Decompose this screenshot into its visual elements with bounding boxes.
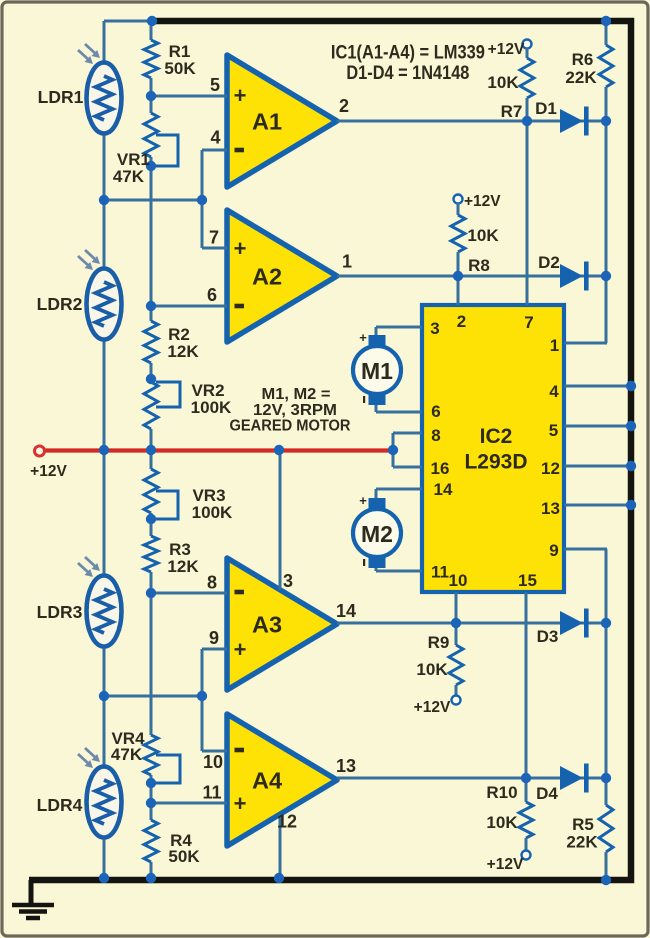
svg-text:A3: A3 (252, 612, 282, 638)
svg-text:3: 3 (283, 571, 293, 591)
svg-text:+: + (234, 236, 247, 261)
svg-text:M1: M1 (361, 358, 393, 384)
svg-text:R9: R9 (428, 633, 450, 652)
svg-text:4: 4 (210, 128, 220, 148)
svg-text:4: 4 (549, 382, 559, 401)
svg-text:9: 9 (549, 541, 558, 560)
svg-text:LDR3: LDR3 (37, 602, 83, 622)
svg-text:12K: 12K (167, 342, 199, 361)
svg-text:12K: 12K (167, 557, 199, 576)
svg-text:+: + (234, 637, 247, 662)
svg-text:+12V: +12V (487, 856, 524, 873)
svg-text:8: 8 (207, 573, 217, 593)
svg-text:12V, 3RPM: 12V, 3RPM (253, 402, 337, 419)
svg-text:12: 12 (541, 459, 560, 478)
svg-text:7: 7 (524, 313, 533, 332)
svg-text:22K: 22K (566, 833, 598, 852)
svg-text:IC2: IC2 (480, 425, 513, 448)
svg-text:R8: R8 (468, 256, 490, 275)
svg-text:10K: 10K (486, 813, 518, 832)
svg-text:GEARED MOTOR: GEARED MOTOR (230, 418, 351, 435)
svg-text:M1, M2 =: M1, M2 = (262, 386, 331, 403)
svg-text:10: 10 (449, 571, 468, 590)
svg-text:+12V: +12V (30, 463, 67, 480)
svg-text:LDR4: LDR4 (37, 795, 83, 815)
svg-text:50K: 50K (164, 59, 196, 78)
svg-text:5: 5 (549, 421, 558, 440)
svg-text:15: 15 (518, 571, 537, 590)
svg-text:10K: 10K (416, 660, 448, 679)
svg-text:14: 14 (434, 480, 453, 499)
svg-text:+: + (359, 493, 367, 508)
svg-text:3: 3 (430, 319, 439, 338)
svg-text:A1: A1 (252, 109, 282, 135)
svg-text:5: 5 (210, 75, 220, 95)
svg-text:10: 10 (203, 752, 223, 772)
svg-text:100K: 100K (192, 503, 233, 522)
svg-text:2: 2 (339, 96, 349, 116)
svg-text:+12V: +12V (464, 193, 501, 210)
svg-text:L293D: L293D (464, 451, 527, 474)
svg-text:13: 13 (336, 756, 356, 776)
svg-text:47K: 47K (111, 745, 143, 764)
svg-text:D1: D1 (535, 99, 557, 118)
svg-text:8: 8 (431, 426, 440, 445)
svg-text:11: 11 (431, 563, 449, 582)
svg-text:10K: 10K (467, 226, 499, 245)
svg-text:100K: 100K (191, 398, 232, 417)
svg-text:6: 6 (431, 402, 440, 421)
svg-text:+: + (234, 791, 247, 816)
svg-text:A2: A2 (252, 264, 282, 290)
svg-text:2: 2 (457, 312, 466, 331)
svg-text:7: 7 (209, 228, 219, 248)
svg-text:+: + (234, 83, 247, 108)
svg-text:47K: 47K (113, 167, 145, 186)
svg-text:LDR1: LDR1 (38, 87, 84, 107)
svg-text:13: 13 (541, 499, 560, 518)
svg-text:R7: R7 (501, 102, 523, 121)
svg-text:D3: D3 (537, 627, 559, 646)
svg-text:11: 11 (202, 783, 221, 803)
svg-text:+: + (359, 330, 367, 345)
svg-text:10K: 10K (487, 73, 519, 92)
svg-text:+12V: +12V (488, 41, 525, 58)
svg-text:D2: D2 (538, 253, 560, 272)
svg-text:9: 9 (209, 628, 219, 648)
svg-text:1: 1 (342, 252, 352, 272)
svg-text:R5: R5 (572, 815, 594, 834)
svg-text:LDR2: LDR2 (37, 294, 83, 314)
svg-text:14: 14 (336, 601, 356, 621)
svg-text:+12V: +12V (414, 699, 451, 716)
svg-text:22K: 22K (565, 68, 597, 87)
svg-text:6: 6 (207, 285, 217, 305)
svg-text:R6: R6 (572, 50, 594, 69)
svg-text:M2: M2 (361, 521, 393, 547)
svg-text:1: 1 (550, 336, 559, 355)
svg-text:R10: R10 (486, 783, 517, 802)
svg-text:A4: A4 (252, 768, 282, 794)
svg-text:12: 12 (277, 812, 297, 832)
svg-text:IC1(A1-A4) = LM339: IC1(A1-A4) = LM339 (331, 43, 485, 64)
svg-text:16: 16 (431, 459, 450, 478)
svg-text:D4: D4 (536, 784, 558, 803)
svg-text:50K: 50K (168, 847, 200, 866)
svg-text:D1-D4 = 1N4148: D1-D4 = 1N4148 (346, 63, 469, 84)
